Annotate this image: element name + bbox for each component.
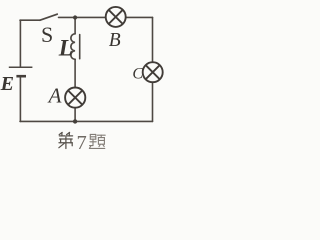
wire: right vertical (top-right corner to bottom-right corner) — [152, 17, 154, 121]
wire: bottom rail — [20, 120, 153, 122]
lamp B — [106, 7, 126, 27]
svg-text:B: B — [109, 30, 121, 51]
svg-text:S: S — [41, 22, 53, 47]
svg-text:L: L — [58, 36, 73, 61]
caption character 题 — [89, 134, 105, 148]
wire: top-left horizontal (corner to switch contact) — [20, 19, 40, 21]
wire: inductor branch top (junction down to coil) — [74, 17, 76, 33]
node: bottom junction dot — [73, 119, 77, 123]
wire: top rail from switch to top-right corner — [59, 16, 153, 18]
inductor L coil (3 loops) — [71, 34, 75, 60]
caption character 第 — [59, 132, 73, 148]
svg-text:E: E — [0, 73, 14, 95]
svg-text:C: C — [132, 66, 143, 83]
wire: left vertical (top corner down to battery top plate) — [19, 20, 21, 67]
inductor L core line — [79, 35, 81, 59]
lamp A — [65, 88, 85, 108]
svg-text:7: 7 — [77, 132, 87, 152]
svg-text:A: A — [47, 83, 62, 107]
wire: lamp A bottom to bottom-rail junction — [74, 108, 76, 122]
battery E long plate — [9, 66, 33, 68]
battery E short plate — [16, 75, 26, 78]
lamp C — [143, 62, 163, 82]
switch S lever — [40, 14, 57, 20]
wire: coil bottom down to lamp A — [74, 59, 76, 87]
wire: left vertical (battery bottom plate down to bottom rail) — [19, 76, 21, 121]
node: top junction dot — [73, 15, 77, 19]
